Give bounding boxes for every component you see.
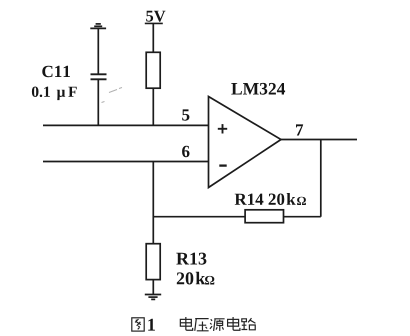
wire (5V to resistor) bbox=[152, 23, 154, 52]
resistor (5V pull-up) bbox=[146, 52, 160, 88]
caption: hanzi YUAN (source) bbox=[210, 319, 225, 331]
op-amp minus input mark bbox=[219, 164, 226, 166]
label 0.1uF bbox=[32, 87, 50, 98]
caption: hanzi YA (pressure) bbox=[195, 319, 209, 331]
label R13 value 20k ohm bbox=[177, 272, 206, 285]
ground (bottom) bbox=[145, 295, 161, 300]
label R13 bbox=[176, 253, 206, 265]
caption: hanzi DIAN (electric) second bbox=[228, 317, 240, 330]
caption: figure number 1 bbox=[148, 319, 155, 331]
capacitor C11 bbox=[91, 74, 107, 79]
wire (output drop to feedback) bbox=[320, 140, 322, 217]
op-amp plus input mark bbox=[218, 124, 227, 133]
label pin 5 bbox=[182, 109, 189, 120]
label R14 20k ohm bbox=[235, 193, 296, 205]
label pin 7 bbox=[296, 124, 303, 135]
wire (resistor to pin5 line) bbox=[152, 88, 154, 125]
wire (R13 to ground) bbox=[152, 280, 154, 295]
wire (pin 5 input line) bbox=[43, 124, 209, 126]
wire (output pin 7) bbox=[281, 139, 357, 141]
resistor R14 bbox=[245, 210, 283, 223]
wire (pin 6 input line) bbox=[43, 161, 209, 163]
op-amp U1 LM324 bbox=[209, 97, 282, 188]
resistor R13 bbox=[146, 244, 160, 280]
caption: hanzi LU (circuit/road) bbox=[241, 318, 255, 330]
wire (feedback line) bbox=[153, 216, 320, 218]
caption: hanzi DIAN (electric) bbox=[180, 317, 192, 330]
ground (top of C11) bbox=[90, 24, 106, 29]
label 5V bbox=[146, 11, 165, 22]
caption: hanzi TU (figure) bbox=[132, 318, 144, 331]
label pin 6 bbox=[182, 146, 189, 158]
label C11 bbox=[42, 66, 70, 78]
wire (pin6 line down to R13) bbox=[152, 162, 154, 244]
label LM324 bbox=[231, 83, 285, 95]
scan speckles (faint) bbox=[102, 88, 123, 103]
wire (ground to C11) bbox=[97, 28, 99, 74]
wire (C11 to pin5 line) bbox=[97, 79, 99, 125]
